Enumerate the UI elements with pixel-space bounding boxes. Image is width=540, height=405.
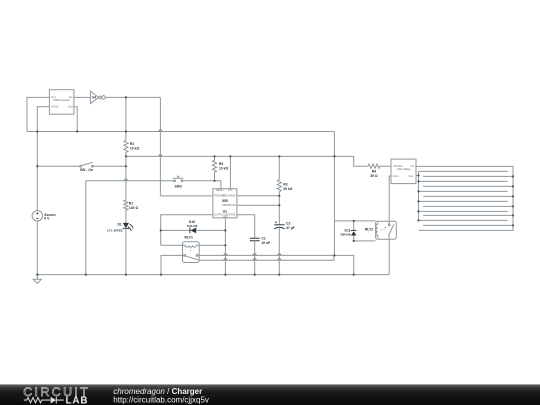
wire relay2 coil bottom [354, 240, 376, 242]
svg-text:High Voltage: High Voltage [397, 168, 411, 171]
wire THRESHOLD [237, 204, 279, 206]
svg-text:U1: U1 [223, 210, 227, 214]
svg-text:R3: R3 [283, 183, 287, 187]
wire PWM Out pin to inverter [74, 96, 91, 98]
svg-text:chromedragon / Charger: chromedragon / Charger [113, 387, 202, 396]
wire PWM In pin to source rail [37, 107, 49, 280]
svg-text:555: 555 [222, 199, 228, 203]
wire bus A [27, 131, 334, 133]
wire bus B [126, 155, 335, 157]
wire HV out- stub [416, 175, 419, 177]
svg-text:10 kΩ: 10 kΩ [219, 166, 229, 170]
svg-text:Gnd -: Gnd - [408, 176, 414, 178]
svg-text:39 kΩ: 39 kΩ [283, 187, 293, 191]
svg-text:VCC: VCC [228, 190, 233, 192]
svg-text:Gnd: Gnd [51, 97, 56, 99]
svg-text:R1: R1 [129, 202, 133, 206]
svg-text:C1: C1 [261, 236, 265, 240]
pushbutton SW2 [174, 180, 176, 182]
svg-text:47 µF: 47 µF [286, 226, 295, 230]
wire hop bumps [124, 130, 281, 260]
svg-text:Out: Out [410, 165, 414, 168]
wire battery top loop [416, 166, 513, 230]
svg-text:LTL-307EE: LTL-307EE [107, 229, 122, 233]
resistor R4 [368, 164, 391, 168]
capacitor C2 [274, 224, 284, 226]
wire switch rail left [37, 165, 79, 167]
svg-text:6 V: 6 V [44, 216, 50, 220]
wire LED rail vertical [125, 156, 127, 200]
svg-text:THRESHOLD: THRESHOLD [222, 205, 237, 207]
svg-text:Out: Out [69, 96, 73, 99]
svg-text:Gnd +: Gnd + [393, 176, 400, 178]
wire line2 relay1 NO jog [199, 255, 334, 260]
svg-text:GND: GND [223, 216, 228, 218]
wire relay1 coil right [199, 244, 225, 246]
wire HV gnd stub down to relay2 [389, 176, 391, 224]
wire relay1 coil left [161, 244, 183, 246]
svg-text:RESET: RESET [216, 190, 224, 192]
svg-text:10 nF: 10 nF [261, 241, 270, 245]
switch SW1 SW - On [80, 165, 82, 167]
wire CONTROL to C1 [237, 215, 255, 238]
svg-text:RLY2: RLY2 [365, 228, 373, 232]
resistor R3 [277, 156, 281, 224]
svg-text:140 Ω: 140 Ω [129, 206, 139, 210]
svg-text:http://circuitlab.com/cjjxq5v: http://circuitlab.com/cjjxq5v [113, 396, 209, 405]
wire inverter output [105, 96, 160, 98]
wire bus B to R4 [334, 156, 368, 166]
svg-text:In/OSC: In/OSC [51, 107, 59, 109]
voltage source V1 [32, 211, 42, 221]
wire relay2 switch down to bus [388, 239, 390, 274]
capacitor C1 [250, 238, 260, 241]
wire switch to LED rail [93, 165, 126, 167]
wire RESET rail left corner [85, 181, 87, 275]
wire PWM Gnd pin to bus [27, 97, 49, 131]
op-amp inverter U4 [90, 91, 98, 104]
wire battery left vertical [418, 171, 420, 220]
wire big vertical node [333, 132, 335, 256]
LED D1 [123, 223, 129, 228]
wire relay1 common to ground bus [161, 255, 184, 274]
svg-text:1N4148: 1N4148 [340, 233, 351, 237]
wire line1 relay1 NC to node [198, 255, 354, 274]
wire PWM Gnd2 stub down to bus A [74, 107, 77, 132]
svg-text:C2: C2 [286, 222, 290, 226]
relay RLY2 [376, 221, 397, 239]
relay RLY1 [183, 242, 200, 263]
ground [33, 279, 41, 283]
diode D10 [189, 228, 191, 234]
svg-text:R2: R2 [130, 142, 134, 146]
resistor R2 [124, 132, 128, 157]
wire OUTPUT to relay coil [161, 215, 213, 246]
wire VCC [229, 156, 231, 188]
wire TRIG [160, 195, 213, 197]
svg-text:Gnd: Gnd [68, 107, 73, 109]
svg-text:1N4148: 1N4148 [187, 224, 198, 228]
wire node at x126 down to bus A [125, 97, 127, 131]
resistor R5 [212, 156, 216, 180]
battery BT1 plates [419, 171, 508, 220]
diode D11 [353, 221, 355, 230]
svg-text:+5V/OSC: +5V/OSC [393, 166, 403, 168]
svg-text:D1: D1 [117, 223, 121, 227]
svg-text:RLY1: RLY1 [185, 235, 193, 239]
svg-text:LAB: LAB [66, 395, 89, 405]
logo diode symbol [51, 397, 56, 404]
wire D10 rail [161, 229, 226, 231]
wire ground bus [37, 274, 389, 276]
logo resistor squiggle [24, 398, 50, 403]
wire LED cathode down to ground bus [125, 228, 127, 274]
svg-text:R4: R4 [372, 170, 376, 174]
ic U1 555 box [213, 189, 237, 218]
svg-text:U4: U4 [92, 96, 96, 100]
svg-text:PWM Generator: PWM Generator [53, 99, 70, 102]
svg-text:DISCHARGE: DISCHARGE [222, 195, 236, 198]
svg-text:R5: R5 [219, 162, 223, 166]
wire C1 down to bus [254, 241, 256, 275]
wire RESET rail [86, 181, 221, 189]
wire inverter output down to TRIG [159, 97, 161, 195]
svg-text:SW - On: SW - On [80, 168, 93, 172]
svg-text:39 Ω: 39 Ω [370, 174, 378, 178]
wire C2 down to bus [278, 228, 280, 275]
wire relay2 coil top [334, 220, 375, 222]
wire GND pin down [224, 218, 226, 275]
wire DIS [237, 195, 279, 197]
svg-text:SW2: SW2 [175, 185, 182, 189]
hv-boost box U2 [391, 159, 416, 184]
resistor R1 [124, 200, 128, 223]
footer bar [0, 384, 540, 405]
svg-text:10 kΩ: 10 kΩ [130, 146, 140, 150]
pwm-generator box U3 [49, 90, 74, 115]
